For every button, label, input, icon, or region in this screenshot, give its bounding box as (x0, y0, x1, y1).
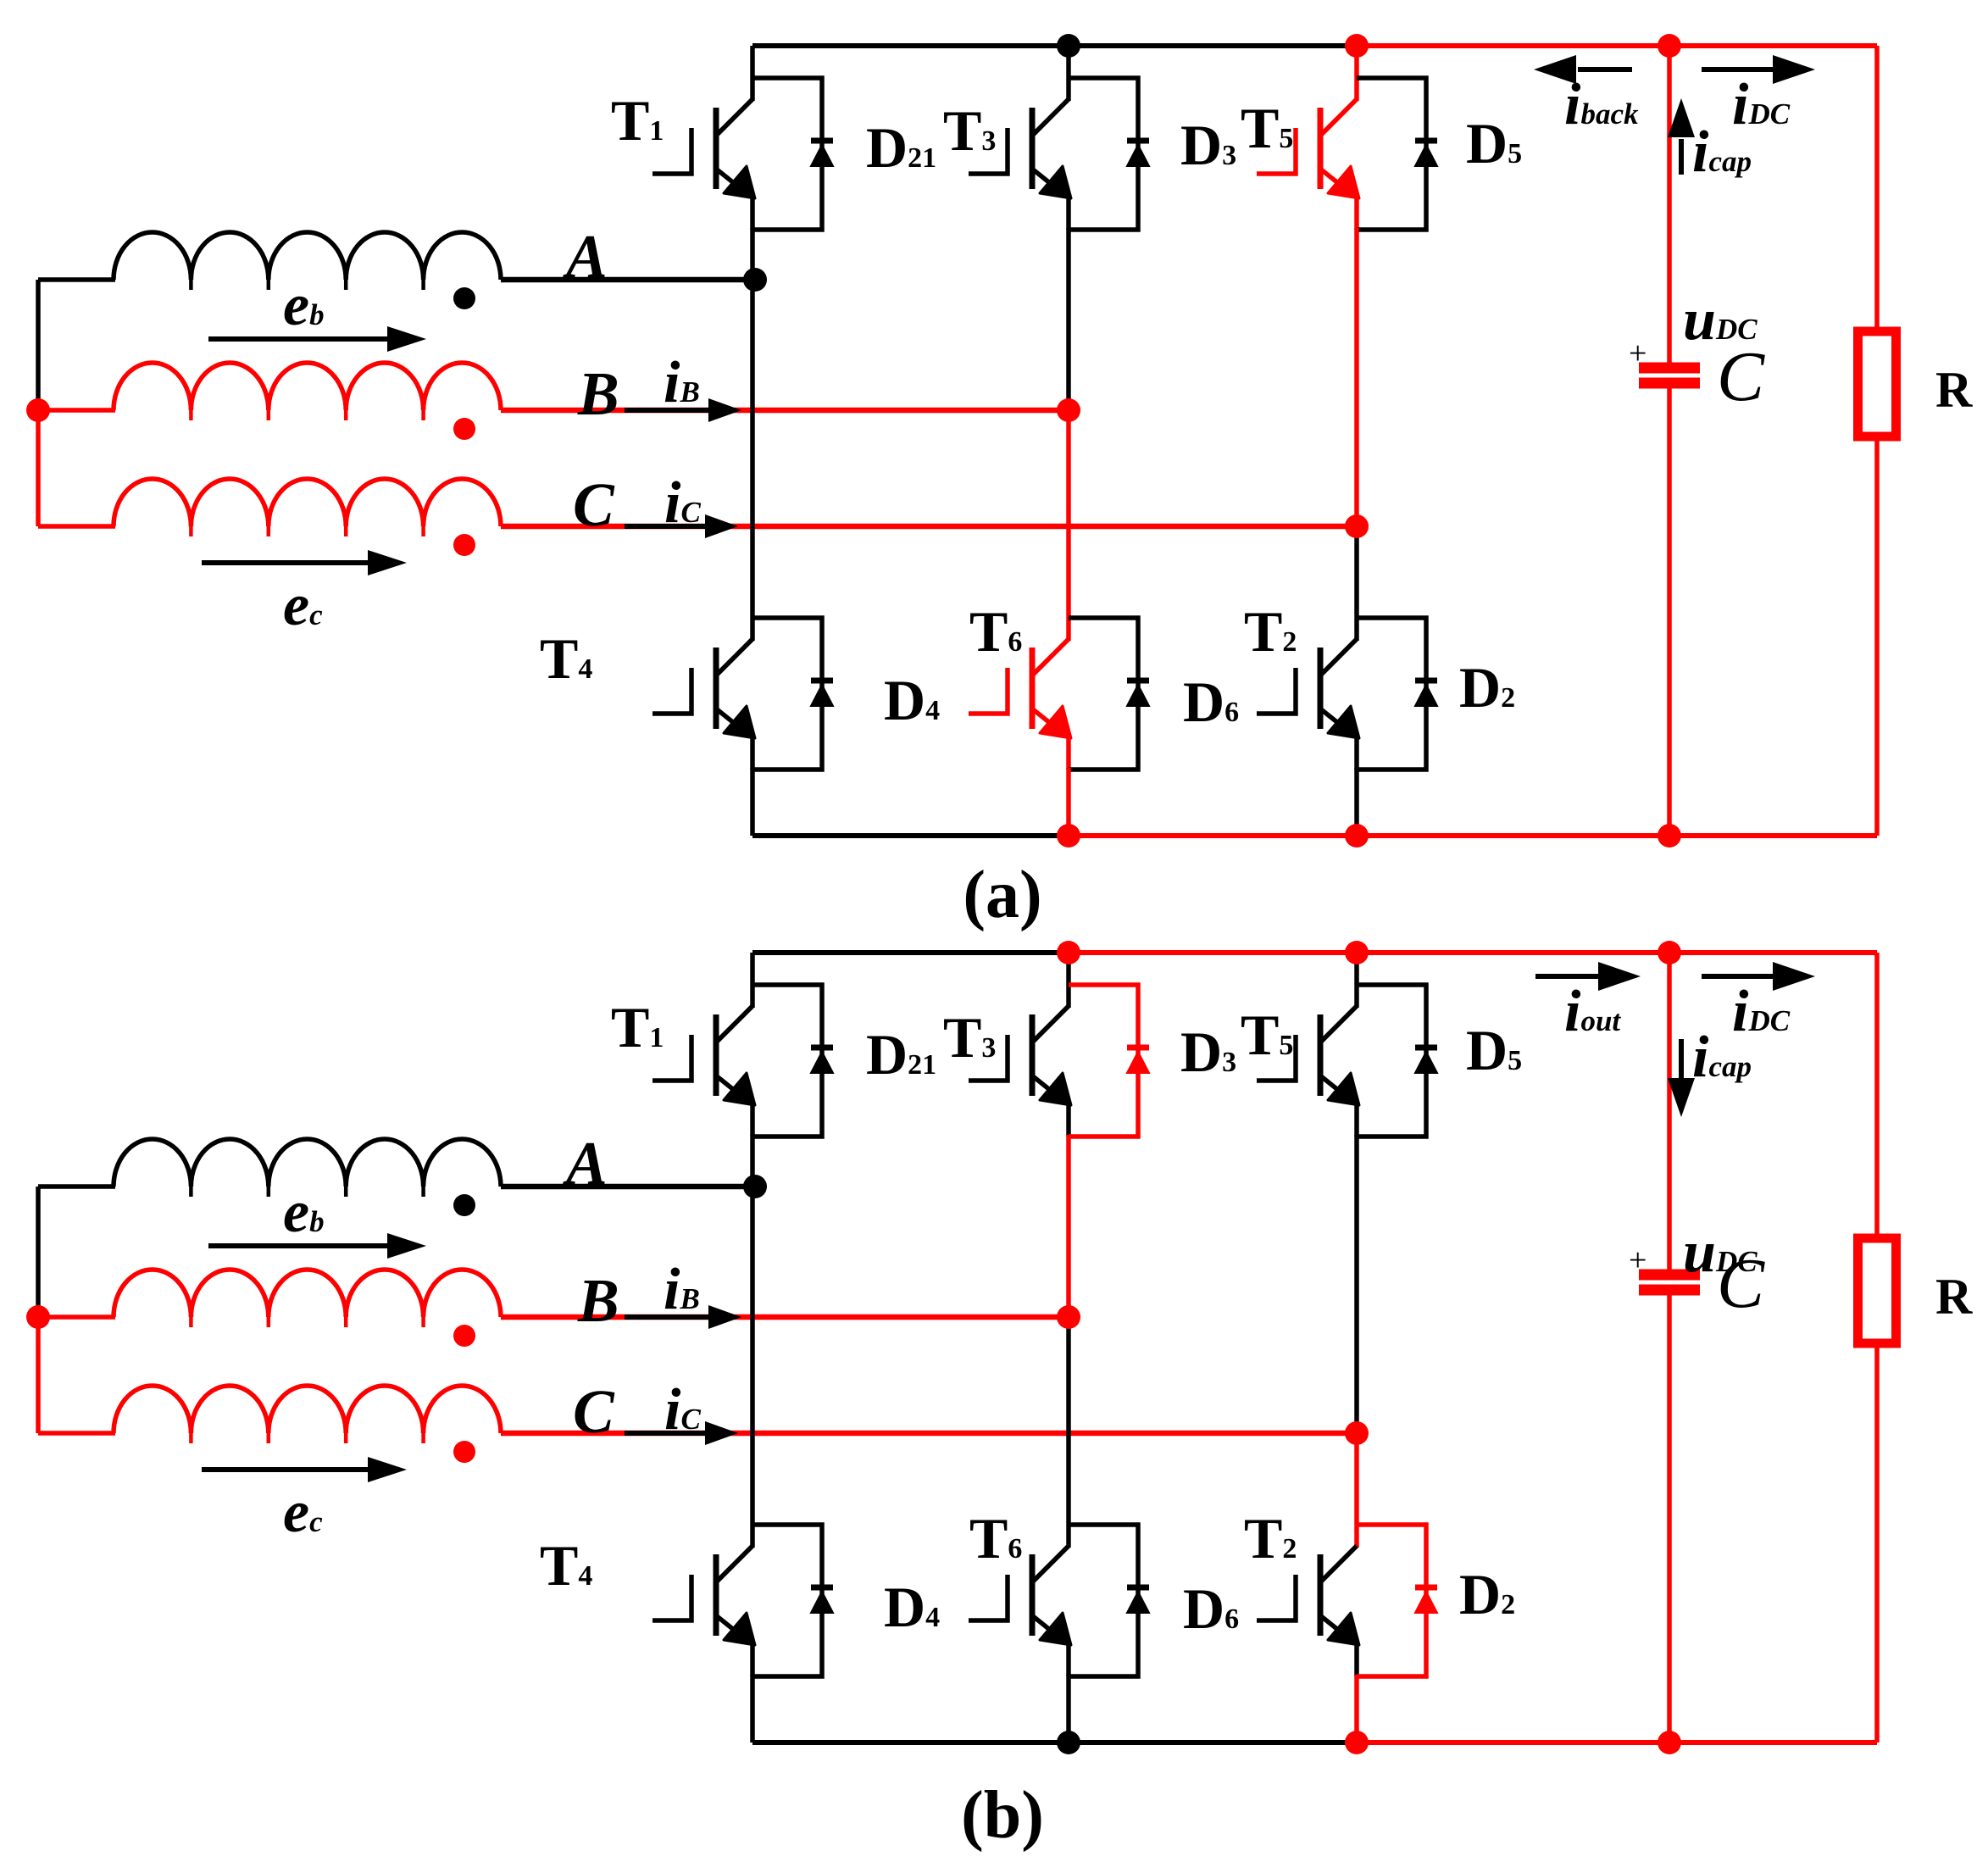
transistor T6 (b) (969, 1546, 1071, 1676)
arrow i_C (a) (625, 524, 705, 529)
resistor R (b) (1858, 1238, 1896, 1343)
arrow i_DC (a) (1702, 67, 1774, 72)
svg-text:iback: iback (1564, 72, 1639, 137)
svg-text:T5: T5 (1241, 1003, 1293, 1067)
wire capacitor top lead (b) (1667, 953, 1672, 1270)
wire capacitor top lead (a) (1667, 46, 1672, 364)
svg-text:iB: iB (664, 1257, 700, 1322)
junction bottom rail leg3 (b) (1345, 1731, 1369, 1754)
wire T2 collector (a) (1354, 526, 1359, 641)
svg-text:R: R (1935, 1269, 1973, 1325)
wire capacitor bottom lead (b) (1667, 1294, 1672, 1742)
svg-text:T1: T1 (611, 88, 664, 153)
wire bottom rail red (b) (1357, 1740, 1877, 1745)
arrow i_C (b) (625, 1431, 705, 1436)
wire phase A (a) (501, 277, 752, 282)
transistor T1 (a) (652, 99, 755, 230)
svg-text:eb: eb (283, 273, 325, 338)
svg-text:D3: D3 (1180, 113, 1236, 177)
wire T5 collector (b) (1354, 953, 1359, 1008)
svg-text:T3: T3 (943, 1005, 996, 1070)
svg-text:T6: T6 (969, 1506, 1022, 1570)
polarity dot phase B (b) (453, 1325, 475, 1347)
svg-text:D21: D21 (866, 1022, 936, 1087)
wire phase B (b) (501, 1315, 1069, 1320)
polarity dot phase A (a) (453, 287, 475, 309)
diode D5 (a) (1357, 78, 1437, 230)
wire T6 emitter to rail (b) (1066, 1675, 1071, 1742)
resistor R (a) (1858, 331, 1896, 436)
svg-text:D2: D2 (1459, 655, 1515, 720)
capacitor C plates (b) (1639, 1270, 1700, 1281)
svg-text:C: C (573, 470, 615, 539)
wire T2 collector (b) (1354, 1433, 1359, 1548)
transistor T2 (a) (1257, 639, 1359, 770)
wire T3 collector (a) (1066, 46, 1071, 101)
wire coil-c left stub (b) (38, 1431, 115, 1436)
wire phase A (b) (501, 1184, 752, 1189)
junction phase C / leg3 (a) (1345, 514, 1369, 538)
junction top rail leg2 (a) (1057, 34, 1080, 58)
diode D6 (a) (1069, 618, 1149, 770)
polarity dot phase C (a) (453, 534, 475, 556)
arrow i_B (a) (625, 408, 708, 413)
wire resistor top lead (a) (1874, 46, 1880, 335)
wire coil-a left stub (b) (38, 1184, 115, 1189)
svg-text:T3: T3 (943, 98, 996, 163)
diode D21 (b) (752, 985, 833, 1137)
wire T1 emitter to phase (b) (750, 1135, 755, 1187)
transistor T5 (a) (1257, 99, 1359, 230)
wire T1 collector (a) (750, 46, 755, 101)
svg-text:C: C (1717, 337, 1765, 416)
svg-text:+: + (1629, 336, 1646, 371)
wire left vertical lower (b) (36, 1317, 41, 1433)
svg-text:T2: T2 (1244, 1506, 1297, 1570)
svg-text:+: + (1629, 1242, 1646, 1278)
diode D4 (b) (752, 1525, 833, 1676)
wire coil-c left stub (a) (38, 524, 115, 529)
wire coil-b left stub (a) (38, 408, 115, 413)
inductor La (b) (114, 1139, 501, 1197)
transistor T1 (b) (652, 1006, 755, 1137)
transistor T4 (b) (652, 1546, 755, 1676)
wire T6 collector (b) (1066, 1317, 1071, 1548)
diode D2 (a) (1357, 618, 1437, 770)
svg-text:D21: D21 (866, 115, 936, 180)
svg-text:D6: D6 (1183, 670, 1239, 734)
polarity dot phase B (a) (453, 418, 475, 440)
wire T4 collector (a) (750, 280, 755, 641)
svg-text:iC: iC (664, 470, 701, 536)
wire left vertical lower (a) (36, 410, 41, 526)
svg-text:C: C (573, 1377, 615, 1446)
wire T4 emitter to rail (b) (750, 1675, 755, 1742)
junction phase B / leg2 (b) (1057, 1305, 1080, 1329)
junction top rail capacitor branch (a) (1658, 34, 1681, 58)
svg-text:iB: iB (664, 350, 700, 415)
arrow i_out (b) (1535, 974, 1598, 979)
arrow i_cap up (a) (1679, 139, 1684, 175)
wire resistor top lead (b) (1874, 953, 1880, 1242)
wire T4 collector (b) (750, 1187, 755, 1548)
inductor Lb (a) (114, 363, 501, 420)
polarity dot phase A (b) (453, 1194, 475, 1216)
inductor Lc (b) (114, 1386, 501, 1443)
wire top rail red (b) (1069, 950, 1877, 955)
svg-text:A: A (563, 1129, 608, 1198)
svg-text:T2: T2 (1244, 599, 1297, 664)
wire T2 emitter to rail (a) (1354, 768, 1359, 836)
svg-text:B: B (577, 359, 619, 428)
junction top rail leg3 (a) (1345, 34, 1369, 58)
wire phase C (b) (501, 1431, 1357, 1436)
svg-text:D3: D3 (1180, 1020, 1236, 1084)
svg-text:eb: eb (283, 1180, 325, 1245)
wire phase B (a) (501, 408, 1069, 413)
wire bottom rail black (a) (752, 833, 1069, 838)
diode D3 (a) (1069, 78, 1149, 230)
arrow i_B (b) (625, 1315, 708, 1320)
transistor T2 (b) (1257, 1546, 1359, 1676)
svg-text:T4: T4 (540, 626, 592, 691)
svg-text:C: C (1717, 1244, 1765, 1323)
junction bottom rail leg3 (a) (1345, 824, 1369, 848)
svg-text:D6: D6 (1183, 1576, 1239, 1641)
arrow i_back (a) (1578, 67, 1632, 72)
inductor La (a) (114, 232, 501, 290)
junction bottom rail leg2 (b) (1057, 1731, 1080, 1754)
wire T6 collector (a) (1066, 410, 1071, 641)
svg-text:A: A (563, 222, 608, 291)
arrow e_b (a) (208, 336, 387, 342)
wire bottom rail black (b) (752, 1740, 1357, 1745)
junction bottom rail leg2 (a) (1057, 824, 1080, 848)
junction top rail capacitor branch (b) (1658, 941, 1681, 964)
svg-text:iDC: iDC (1732, 979, 1791, 1044)
svg-text:D4: D4 (884, 1575, 940, 1639)
wire T1 emitter to phase (a) (750, 228, 755, 280)
svg-text:T4: T4 (540, 1533, 592, 1598)
svg-text:R: R (1935, 362, 1973, 418)
transistor T3 (a) (969, 99, 1071, 230)
wire T2 emitter to rail (b) (1354, 1675, 1359, 1742)
junction top rail leg2 (b) (1057, 941, 1080, 964)
svg-text:ec: ec (283, 1480, 323, 1545)
wire T3 emitter to phase (b) (1066, 1135, 1071, 1317)
svg-text:(a): (a) (963, 858, 1041, 932)
inductor Lc (a) (114, 479, 501, 536)
wire capacitor bottom lead (a) (1667, 387, 1672, 836)
wire left vertical upper (b) (36, 1187, 41, 1317)
wire T3 collector (b) (1066, 953, 1071, 1008)
svg-text:iDC: iDC (1732, 72, 1791, 137)
svg-text:iout: iout (1564, 979, 1621, 1044)
junction bottom rail capacitor branch (b) (1658, 1731, 1681, 1754)
wire T6 emitter to rail (a) (1066, 768, 1071, 836)
wire top rail black (b) (752, 950, 1069, 955)
junction left vertical / phase-b (a) (26, 398, 50, 422)
diode D5 (b) (1357, 985, 1437, 1137)
wire resistor bottom lead (a) (1874, 437, 1880, 836)
wire phase C (a) (501, 524, 1357, 529)
diode D4 (a) (752, 618, 833, 770)
svg-text:D5: D5 (1466, 111, 1522, 175)
arrow i_DC (b) (1702, 974, 1774, 979)
junction bottom rail capacitor branch (a) (1658, 824, 1681, 848)
transistor T4 (a) (652, 639, 755, 770)
svg-text:T1: T1 (611, 995, 664, 1059)
svg-text:B: B (577, 1266, 619, 1335)
wire coil-a left stub (a) (38, 277, 115, 282)
wire T5 emitter to phase (b) (1354, 1135, 1359, 1433)
capacitor C plates (a) (1639, 363, 1700, 374)
wire top rail red (a) (1357, 43, 1877, 48)
junction left vertical / phase-b (b) (26, 1305, 50, 1329)
arrow e_c (a) (202, 560, 368, 565)
arrow i_cap down (b) (1679, 1039, 1684, 1078)
diode D3 (b) (1069, 985, 1149, 1137)
node A junction (b) (743, 1175, 767, 1198)
wire T5 emitter to phase (a) (1354, 228, 1359, 526)
transistor T5 (b) (1257, 1006, 1359, 1137)
wire T1 collector (b) (750, 953, 755, 1008)
junction phase C / leg3 (b) (1345, 1421, 1369, 1445)
inductor Lb (b) (114, 1270, 501, 1327)
wire bottom rail red (a) (1069, 833, 1877, 838)
polarity dot phase C (b) (453, 1441, 475, 1463)
wire T3 emitter to phase (a) (1066, 228, 1071, 410)
svg-text:D5: D5 (1466, 1018, 1522, 1082)
wire top rail black (a) (752, 43, 1357, 48)
wire resistor bottom lead (b) (1874, 1344, 1880, 1742)
wire T5 collector (a) (1354, 46, 1359, 101)
diode D21 (a) (752, 78, 833, 230)
wire left vertical upper (a) (36, 280, 41, 410)
svg-text:T6: T6 (969, 599, 1022, 664)
wire coil-b left stub (b) (38, 1315, 115, 1320)
wire T4 emitter to rail (a) (750, 768, 755, 836)
transistor T6 (a) (969, 639, 1071, 770)
svg-text:D4: D4 (884, 668, 940, 732)
svg-text:T5: T5 (1241, 96, 1293, 160)
transistor T3 (b) (969, 1006, 1071, 1137)
svg-text:(b): (b) (961, 1778, 1044, 1853)
diode D2 (b) (1357, 1525, 1437, 1676)
node A junction (a) (743, 268, 767, 292)
junction phase B / leg2 (a) (1057, 398, 1080, 422)
arrow e_b (b) (208, 1243, 387, 1248)
arrow e_c (b) (202, 1467, 368, 1472)
svg-text:iC: iC (664, 1377, 701, 1442)
diode D6 (b) (1069, 1525, 1149, 1676)
svg-text:D2: D2 (1459, 1562, 1515, 1626)
junction top rail leg3 (b) (1345, 941, 1369, 964)
svg-text:ec: ec (283, 573, 323, 638)
